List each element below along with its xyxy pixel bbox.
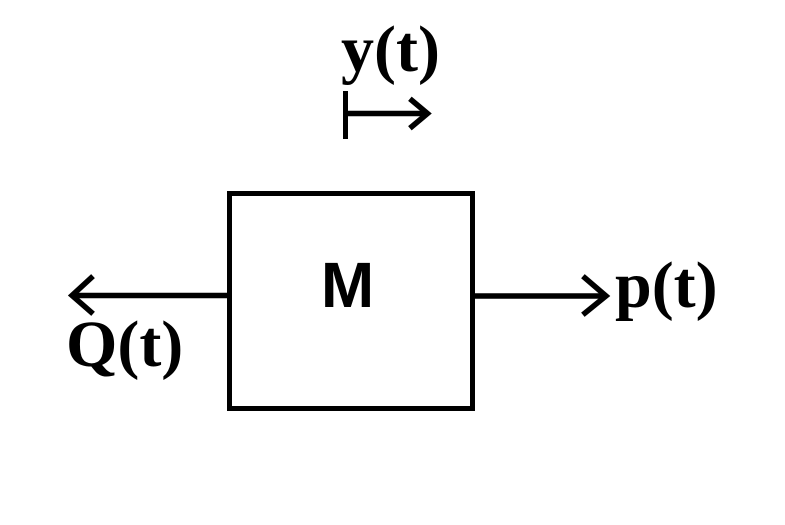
wire y(t) arrow shaft xyxy=(346,111,427,117)
svg-text:p(t): p(t) xyxy=(615,249,718,322)
svg-text:M: M xyxy=(321,249,374,321)
node y(t) reference tick xyxy=(343,91,348,139)
arrowhead Q(t) xyxy=(72,278,91,312)
svg-text:y(t): y(t) xyxy=(341,13,440,86)
arrowhead p(t) xyxy=(585,278,606,313)
wire Q(t) arrow shaft xyxy=(73,293,227,299)
wire p(t) arrow shaft xyxy=(473,293,605,299)
svg-text:Q(t): Q(t) xyxy=(66,308,183,381)
arrowhead y(t) xyxy=(412,101,428,127)
block M (mass box) xyxy=(230,194,473,409)
